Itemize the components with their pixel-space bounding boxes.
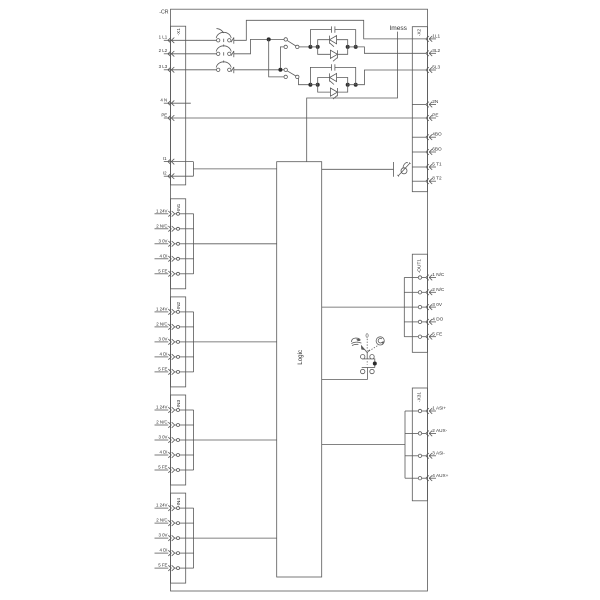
svg-text:2 N/C: 2 N/C <box>156 518 167 523</box>
svg-text:3 0V: 3 0V <box>158 533 167 538</box>
svg-text:-X2: -X2 <box>417 28 423 36</box>
svg-text:2 N/C: 2 N/C <box>156 322 167 327</box>
svg-text:PE: PE <box>432 113 438 118</box>
svg-text:3 ASi-: 3 ASi- <box>432 451 445 456</box>
svg-text:5 FE: 5 FE <box>158 563 167 568</box>
svg-text:Logic: Logic <box>297 350 304 365</box>
svg-text:1 L1: 1 L1 <box>159 35 168 40</box>
svg-text:3 0V: 3 0V <box>432 302 443 307</box>
svg-text:4 DI: 4 DI <box>159 548 167 553</box>
svg-text:1 24V: 1 24V <box>156 405 168 410</box>
svg-text:-IN2: -IN2 <box>176 301 182 310</box>
svg-text:5 FE: 5 FE <box>158 465 167 470</box>
svg-text:-OUT1: -OUT1 <box>417 259 423 274</box>
svg-text:5 FE: 5 FE <box>158 367 167 372</box>
svg-text:3 0V: 3 0V <box>158 337 167 342</box>
svg-text:3 0V: 3 0V <box>158 238 167 243</box>
svg-text:I2: I2 <box>163 170 167 175</box>
svg-text:2 N/C: 2 N/C <box>156 223 167 228</box>
svg-text:3 L3: 3 L3 <box>159 64 168 69</box>
svg-text:-X31: -X31 <box>417 392 423 402</box>
svg-text:I1: I1 <box>163 156 167 161</box>
svg-text:4 AUX+: 4 AUX+ <box>432 473 448 478</box>
svg-text:-CR: -CR <box>159 9 168 15</box>
svg-text:4 DI: 4 DI <box>159 450 167 455</box>
svg-text:8 T2: 8 T2 <box>432 176 442 181</box>
svg-text:3 0V: 3 0V <box>158 435 167 440</box>
svg-text:5 T1: 5 T1 <box>432 162 442 167</box>
svg-text:2N: 2N <box>432 99 438 104</box>
svg-text:1 24V: 1 24V <box>156 503 168 508</box>
svg-text:1L1: 1L1 <box>432 33 440 38</box>
svg-text:4 DO: 4 DO <box>432 317 443 322</box>
svg-text:PE: PE <box>161 112 167 117</box>
svg-text:1 24V: 1 24V <box>156 208 168 213</box>
svg-text:1 N/C: 1 N/C <box>432 272 445 277</box>
svg-text:5L3: 5L3 <box>432 65 440 70</box>
svg-text:Imess: Imess <box>389 25 407 32</box>
svg-text:4 N: 4 N <box>160 98 167 103</box>
svg-text:4BO: 4BO <box>432 132 442 137</box>
svg-text:2 N/C: 2 N/C <box>432 287 445 292</box>
svg-text:6BO: 6BO <box>432 147 442 152</box>
svg-text:4 DI: 4 DI <box>159 352 167 357</box>
svg-text:1 ASi+: 1 ASi+ <box>432 406 446 411</box>
svg-text:2 AUX-: 2 AUX- <box>432 428 447 433</box>
svg-text:2 N/C: 2 N/C <box>156 420 167 425</box>
svg-text:0: 0 <box>365 334 368 340</box>
svg-text:-IN4: -IN4 <box>176 498 182 507</box>
svg-text:1 24V: 1 24V <box>156 307 168 312</box>
svg-text:5 FE: 5 FE <box>158 268 167 273</box>
svg-text:-X1: -X1 <box>176 28 182 36</box>
svg-text:-IN1: -IN1 <box>176 203 182 212</box>
svg-text:5 FE: 5 FE <box>432 331 442 336</box>
svg-text:2 L2: 2 L2 <box>159 48 168 53</box>
svg-text:-IN3: -IN3 <box>176 400 182 409</box>
svg-text:3L2: 3L2 <box>432 48 440 53</box>
svg-text:4 DI: 4 DI <box>159 253 167 258</box>
